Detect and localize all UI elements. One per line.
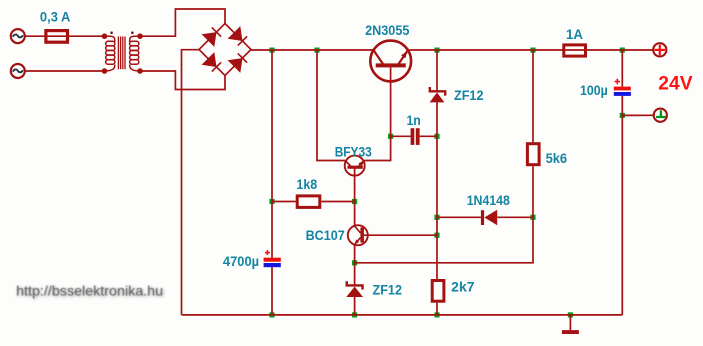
- node on top bus at x=622: [620, 48, 625, 53]
- wire ZF12 bottom to ground bus: [354, 297, 356, 315]
- transformer terminal dot top-right: [137, 33, 143, 39]
- svg-text:5k6: 5k6: [546, 150, 568, 166]
- ground output terminal: [654, 109, 667, 122]
- node bottom bus x=570: [568, 312, 573, 317]
- node on top bus at x=317: [314, 48, 319, 53]
- bridge diode D3 bottom-left: [202, 52, 222, 72]
- wire output ground node to ground terminal: [622, 114, 653, 116]
- wire ground bus stub to earth symbol: [569, 315, 571, 330]
- svg-text:100µ: 100µ: [580, 82, 608, 98]
- node bottom bus x=437: [434, 312, 439, 317]
- node bottom bus x=354: [352, 312, 357, 317]
- wire 4700u rail vertical upper: [271, 50, 273, 258]
- capacitor C3 100u electrolytic: [614, 79, 631, 96]
- wire bridge minus corner to left vertical rail: [182, 50, 200, 315]
- wire AC2 to transformer primary bottom: [25, 70, 105, 72]
- transformer terminal dot bottom-right: [137, 68, 143, 74]
- transformer terminal dot bottom-left: [102, 68, 108, 74]
- svg-text:BFY33: BFY33: [335, 143, 372, 159]
- wire top bus unregulated segment: [251, 49, 374, 51]
- wire 1N4148 anode stub: [497, 216, 533, 218]
- wire 2k7 bottom to ground bus: [436, 303, 438, 315]
- transformer terminal dot top-left: [102, 33, 108, 39]
- wire ZF12 rail zener to 2k7: [436, 102, 438, 279]
- label 1N4148: [467, 192, 510, 208]
- label 5k6: [546, 150, 568, 166]
- transformer phase dot right: [131, 32, 133, 34]
- watermark http://bsselektronika.hu: [16, 283, 164, 300]
- label 1n: [407, 112, 421, 128]
- wire 1k8 right stub: [321, 201, 354, 203]
- label ZF12 bottom: [373, 282, 403, 298]
- AC terminal 1: [11, 29, 25, 43]
- wire 2N3055 base lead down to 1n node: [390, 67, 392, 136]
- svg-text:BC107: BC107: [306, 227, 345, 243]
- label ZF12 top: [454, 87, 484, 103]
- wire BFY33 emitter to 2N3055 base node: [364, 136, 390, 160]
- wire BFY33 collector feed from bus: [317, 50, 345, 161]
- wire ZF12 rail from bus to zener: [436, 50, 438, 91]
- capacitor C2 1n: [411, 128, 420, 145]
- svg-text:1N4148: 1N4148: [467, 192, 510, 208]
- node 1n cap right: [434, 134, 439, 139]
- wire zener node to ZF12 bottom: [354, 263, 356, 285]
- capacitor C1 4700u electrolytic: [264, 250, 281, 267]
- node 1n cap left: [388, 134, 393, 139]
- label 1A: [566, 26, 583, 42]
- fuse F2 1A: [564, 45, 586, 56]
- label 100u: [580, 82, 608, 98]
- resistor R3 2k7: [432, 281, 444, 302]
- wire 100u rail vertical lower to ground bus: [621, 96, 623, 315]
- label 24V: [658, 74, 693, 95]
- node 1N4148 anode: [530, 215, 535, 220]
- zener diode D6 ZF12 bottom: [346, 281, 363, 297]
- svg-text:ZF12: ZF12: [373, 282, 403, 298]
- svg-text:2k7: 2k7: [451, 279, 475, 295]
- label 2N3055: [365, 22, 409, 38]
- bridge rectifier diamond: [199, 24, 251, 76]
- wire AC1 to fuse F1: [25, 35, 45, 37]
- node on top bus at x=533: [530, 48, 535, 53]
- wire BFY33 base down to 1k8 node: [354, 168, 356, 201]
- svg-text:1A: 1A: [566, 26, 583, 42]
- resistor R2 5k6: [527, 144, 539, 165]
- svg-text:4700µ: 4700µ: [223, 253, 259, 269]
- svg-text:1n: 1n: [407, 112, 421, 128]
- label BC107: [306, 227, 345, 243]
- label 0,3 A: [40, 8, 71, 24]
- wire 1n node to cap left plate: [391, 135, 411, 137]
- node 1k8 right: [352, 199, 357, 204]
- wire 5k6 bottom to emitter node: [355, 166, 533, 263]
- node on top bus at x=272: [269, 48, 274, 53]
- svg-text:1k8: 1k8: [296, 176, 317, 192]
- node BC107 base: [434, 233, 439, 238]
- svg-text:ZF12: ZF12: [454, 87, 484, 103]
- wire transformer secondary top to bridge top corner: [140, 9, 225, 36]
- transistor Q3 BC107: [348, 225, 368, 245]
- node on top bus at x=437: [434, 48, 439, 53]
- resistor R1 1k8: [297, 196, 320, 208]
- wire 1k8 left node stub: [272, 201, 296, 203]
- transformer TR1 left winding: [105, 36, 115, 71]
- transistor Q2 BFY33: [345, 156, 365, 176]
- wire 1k8 node down to BC107 collector: [354, 202, 356, 226]
- label 1k8: [296, 176, 317, 192]
- wire 5k6 rail from bus: [532, 50, 534, 142]
- label 4700u: [223, 253, 259, 269]
- svg-text:0,3 A: 0,3 A: [40, 8, 71, 24]
- wire through fuse F1 to transformer primary top: [45, 35, 105, 37]
- label BFY33: [335, 143, 372, 159]
- transformer phase dot left: [110, 32, 112, 34]
- svg-text:http://bsselektronika.hu: http://bsselektronika.hu: [16, 283, 163, 299]
- fuse F1 0,3A: [46, 31, 68, 43]
- node 1k8 left: [269, 199, 274, 204]
- wire 1N4148 cathode stub: [437, 216, 481, 218]
- ground symbol: [562, 330, 579, 334]
- svg-text:24V: 24V: [658, 74, 693, 95]
- wire transformer secondary bottom to bridge bottom corner: [140, 71, 225, 90]
- transistor Q1 2N3055: [370, 41, 411, 82]
- diode D7 1N4148: [481, 210, 497, 226]
- wire BC107 emitter down to zener node: [354, 245, 356, 263]
- svg-text:2N3055: 2N3055: [365, 22, 409, 38]
- wire top bus regulated segment to plus terminal: [408, 49, 653, 51]
- node 1N4148 cathode: [434, 215, 439, 220]
- wire BC107 base to divider node: [364, 234, 437, 236]
- bridge diode D1 top-left: [202, 27, 222, 47]
- node bottom bus x=272: [269, 312, 274, 317]
- node 100u bottom: [620, 113, 625, 118]
- AC terminal 2: [11, 64, 25, 78]
- bridge diode D2 top-right: [228, 26, 248, 45]
- transformer TR1 core: [118, 37, 125, 70]
- wire 100u rail vertical upper: [621, 50, 623, 87]
- plus output terminal: [653, 43, 666, 56]
- node BC107 emitter: [352, 260, 357, 265]
- transformer TR1 right winding: [130, 36, 140, 71]
- wire 4700u rail vertical lower: [271, 267, 273, 315]
- bridge diode D4 bottom-right: [228, 53, 248, 73]
- wire cap right plate to ZF12 rail: [420, 135, 437, 137]
- zener diode D5 ZF12 top: [430, 87, 446, 102]
- label 2k7: [451, 279, 475, 295]
- wire bottom ground bus: [182, 314, 623, 316]
